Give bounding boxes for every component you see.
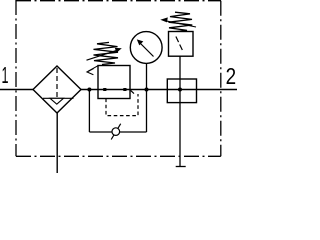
regulator spring (94, 42, 119, 64)
gauge needle arrowhead (137, 39, 144, 45)
pilot stem down to valve (179, 56, 181, 79)
pilot arrow tick to output (131, 90, 134, 93)
pressure gauge (130, 32, 162, 64)
pilot control square (169, 32, 194, 57)
filter separator baffle line (43, 97, 74, 99)
gauge needle (140, 43, 154, 57)
regulator seat mark right (123, 88, 126, 91)
svg-text:2: 2 (226, 63, 237, 89)
regulator adjustment arrow shaft (87, 50, 118, 60)
junction dot in valve (178, 88, 182, 92)
relief line down-left (88, 90, 90, 133)
junction dot left of regulator (87, 88, 91, 92)
main flow line (port 1 to port 2) (0, 89, 237, 91)
pilot valve spring (right) (169, 12, 193, 32)
exhaust end bar (176, 166, 186, 168)
regulator body square (98, 66, 130, 99)
filter / water separator body (33, 66, 81, 113)
check valve seat diagonal (111, 124, 121, 140)
filter condensate triangle (50, 98, 64, 104)
relief bottom line (89, 131, 146, 133)
dashed poppet diagonal inside pilot square (176, 37, 183, 51)
on-off valve body (167, 79, 196, 103)
svg-text:1: 1 (2, 62, 9, 88)
junction dot at gauge stem (145, 88, 149, 92)
pilot dashed line below regulator (106, 94, 138, 116)
filter condensate dashed center line (56, 68, 58, 98)
pilot valve arrow shaft (166, 21, 197, 27)
enclosure dash-dot boundary (16, 0, 221, 156)
arrowhead upper right (filled) (115, 48, 122, 53)
regulator seat mark left (103, 88, 106, 91)
pilot valve arrowhead (left, filled) (160, 17, 168, 22)
check valve ball (112, 128, 120, 136)
knob arrowhead lower left (open) (87, 69, 94, 75)
filter drain line (56, 113, 58, 173)
gauge stem / relief right vertical (146, 63, 148, 132)
knob arrow shaft at square corner (88, 66, 98, 72)
valve center vertical line (179, 79, 181, 167)
